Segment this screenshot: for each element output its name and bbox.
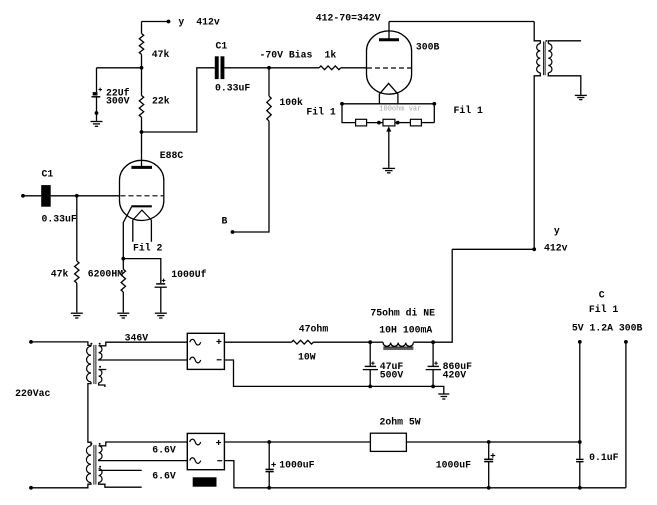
wire [141, 68, 143, 96]
transformer OT core [543, 42, 545, 76]
rectifier 2 plus mark [216, 442, 221, 444]
capacitor 1000uF (filament filter 2) [484, 458, 493, 460]
wire [413, 341, 433, 343]
node B terminal (-70V bias supply) [231, 230, 235, 234]
node y 412v terminal (E88C B+ feed) [167, 20, 171, 24]
pot wiper arrow [386, 126, 391, 131]
wire [99, 460, 188, 461]
wire [269, 67, 319, 69]
wire [77, 195, 120, 197]
capacitor 860uF 420V (smoothing) [428, 365, 439, 367]
svg-text:500V: 500V [380, 370, 404, 381]
node 220Vac terminal lower [29, 486, 33, 490]
node Fil 1 left [340, 102, 344, 106]
wire [433, 249, 452, 342]
transformer T2 secondary 6.6V unused winding [99, 469, 102, 483]
rectifier 1 AC mark upper [190, 339, 201, 345]
wire [341, 67, 367, 69]
node E88C cathode junction [121, 257, 125, 261]
wire [99, 358, 188, 361]
ground [575, 94, 587, 96]
wire [313, 341, 370, 343]
capacitor 1000Uf (cathode bypass) [156, 283, 165, 285]
svg-text:75ohm di NE: 75ohm di NE [370, 307, 435, 318]
wire E88C heater pin 2 [150, 220, 152, 242]
capacitor C1 0.33uF (input coupling) [41, 185, 51, 207]
resistor 1k (300B grid stopper) [319, 66, 341, 70]
transformer T2 core [93, 445, 95, 485]
node junction [396, 121, 400, 125]
wire E88C plate lead [141, 132, 143, 166]
label + of 22Uf [98, 89, 102, 91]
tube E88C heater [133, 210, 152, 220]
resistor 47k (input grid leak) [75, 261, 79, 283]
wire [342, 104, 356, 123]
svg-text:C1: C1 [216, 41, 228, 52]
rectifier bridge 1 body [187, 333, 224, 369]
node junction on 22Uf lead [95, 111, 99, 115]
wire [370, 341, 383, 343]
wire [122, 292, 124, 312]
transformer T2 phase dot secondary 1 [99, 443, 101, 445]
node junction fil rail / 5V line [578, 440, 582, 444]
node -70V bias junction [267, 66, 271, 70]
svg-text:412-70=342V: 412-70=342V [316, 13, 381, 24]
svg-text:E88C: E88C [160, 150, 184, 161]
node 220Vac terminal upper [29, 340, 33, 344]
node junction [377, 121, 381, 125]
node E88C anode junction [140, 130, 144, 134]
node y 412v (B+ node) [532, 247, 536, 251]
node junction fil rail / 1000uF [267, 440, 271, 444]
node junction ground rail [431, 385, 435, 389]
rectifier 2 AC mark lower [190, 458, 201, 464]
node junction ground rail [368, 385, 372, 389]
ground [91, 121, 103, 123]
ground [383, 167, 396, 169]
transformer T2 secondary 6.6V winding [99, 446, 102, 460]
ground [438, 393, 449, 395]
svg-text:10W: 10W [298, 352, 316, 363]
tube 300B plate [379, 38, 399, 41]
resistor 22k (E88C plate load lower) [139, 96, 143, 118]
wire stub [99, 369, 107, 371]
wire [96, 68, 98, 92]
svg-text:y: y [554, 225, 560, 236]
wire [268, 68, 270, 96]
transformer T1 secondary 346V winding [99, 346, 102, 360]
svg-text:5V 1.2A 300B: 5V 1.2A 300B [572, 322, 643, 333]
wire [31, 483, 91, 488]
wire [123, 259, 161, 284]
svg-text:300V: 300V [106, 95, 130, 106]
svg-text:Fil 2: Fil 2 [133, 242, 163, 253]
wire [224, 461, 626, 488]
wire [369, 342, 371, 366]
capacitor 47uF 500V (reservoir) [365, 365, 376, 367]
svg-text:100ohm var: 100ohm var [379, 105, 421, 113]
svg-text:1000uF: 1000uF [436, 459, 471, 470]
svg-text:B: B [222, 216, 228, 227]
svg-text:-70V Bias: -70V Bias [260, 50, 313, 61]
wire [160, 287, 162, 312]
svg-text:1000uF: 1000uF [279, 459, 314, 470]
node junction fil rail / 1000uF 2 [487, 440, 491, 444]
svg-text:C1: C1 [42, 169, 54, 180]
wire [51, 195, 77, 197]
ground [117, 312, 129, 314]
wire [367, 122, 383, 124]
rectifier 1 AC mark lower [190, 357, 201, 363]
wire [268, 442, 270, 469]
capacitor 0.1uF (filament bypass) [576, 458, 583, 460]
wire pot wiper [388, 131, 390, 168]
node 5V output terminal + [578, 340, 582, 344]
svg-text:412v: 412v [544, 243, 568, 254]
svg-text:47k: 47k [51, 269, 69, 280]
wire [88, 382, 91, 446]
label + of 1000uF 2 [491, 455, 496, 457]
wire [406, 441, 579, 443]
tube E88C envelope [120, 160, 164, 220]
wire 300B filament rail [342, 103, 434, 105]
wire [534, 22, 540, 44]
transformer T1 phase dot primary [90, 343, 92, 345]
tube E88C cathode [131, 205, 152, 207]
wire [233, 121, 270, 232]
wire [534, 73, 540, 250]
inductor choke 10H 100mA [383, 342, 413, 346]
svg-text:300B: 300B [416, 42, 440, 53]
wire [579, 462, 581, 488]
tube 300B filament [379, 83, 398, 103]
wire [96, 97, 98, 113]
svg-text:412v: 412v [196, 16, 220, 27]
wire [76, 283, 78, 312]
inductor choke core [383, 346, 413, 348]
wire [142, 68, 215, 132]
rectifier 2 minus mark [217, 460, 222, 462]
wire E88C heater pin 1 [132, 220, 134, 242]
svg-text:6.6V: 6.6V [152, 471, 176, 482]
wire [142, 21, 169, 23]
svg-text:Fil 1: Fil 1 [306, 106, 336, 117]
svg-text:0.33uF: 0.33uF [42, 213, 77, 224]
svg-text:1000Uf: 1000Uf [171, 269, 206, 280]
transformer OT phase dot [545, 40, 547, 42]
tube 300B grid (dashed) [367, 67, 411, 69]
transformer T1 core [93, 345, 95, 384]
resistor 47k (E88C plate load upper) [139, 34, 143, 55]
wire [224, 441, 370, 443]
svg-text:47k: 47k [152, 49, 170, 60]
wire [76, 196, 78, 261]
potentiometer 100ohm var body [383, 119, 395, 126]
svg-text:346V: 346V [125, 332, 149, 343]
rectifier bridge 2 body [187, 433, 224, 469]
svg-text:C: C [599, 289, 605, 300]
wire [99, 442, 188, 446]
node 5V output terminal - [624, 340, 628, 344]
capacitor C1 0.33uF (coupling to 300B) [215, 56, 219, 79]
capacitor 1000uF (filament filter 1) [266, 468, 274, 470]
svg-text:0.1uF: 0.1uF [589, 452, 619, 463]
transformer T1 phase dot secondary 1 [99, 343, 101, 345]
svg-text:22k: 22k [152, 96, 170, 107]
wire E88C cathode lead [123, 207, 131, 259]
node junction bottom rail 3 [578, 486, 582, 490]
wire [141, 117, 143, 132]
svg-text:Fil 1: Fil 1 [589, 304, 619, 315]
tube E88C grid (dashed) [121, 195, 164, 197]
transformer T1 phase dot secondary 2 [99, 366, 101, 368]
rectifier 1 plus mark [216, 341, 221, 343]
svg-text:y: y [178, 16, 184, 27]
rectifier 1 minus mark [217, 359, 222, 361]
wire [488, 462, 490, 488]
ground [71, 312, 83, 314]
svg-text:100k: 100k [279, 97, 303, 108]
node Fil 1 right [432, 102, 436, 106]
resistor hum pot right section [410, 119, 421, 126]
transformer T2 primary winding [86, 446, 91, 483]
svg-text:2ohm 5W: 2ohm 5W [380, 417, 421, 428]
wire [432, 370, 434, 387]
wire [141, 22, 143, 34]
node junction B+ / 860uF [431, 340, 435, 344]
svg-text:10H 100mA: 10H 100mA [379, 325, 432, 336]
wire [488, 442, 490, 459]
label + of 1000Uf [162, 279, 166, 281]
tube 300B envelope [367, 31, 412, 94]
label + of 1000uF [271, 464, 276, 466]
wire [548, 73, 581, 95]
wire stub [99, 469, 142, 471]
resistor 6200HM (cathode bias) [121, 269, 125, 292]
wire [433, 104, 435, 123]
wire [31, 342, 91, 346]
wire [369, 370, 371, 387]
wire [395, 122, 411, 124]
wire [421, 122, 434, 124]
resistor hum pot left section [356, 119, 367, 126]
wire [389, 21, 534, 23]
transformer OT secondary winding [548, 44, 552, 73]
resistor 2ohm 5W (filament dropper) [370, 433, 406, 451]
label block (black) [193, 477, 217, 486]
node E88C grid junction [75, 194, 79, 198]
ground [155, 312, 167, 314]
wire [432, 342, 434, 366]
transformer T2 phase dot secondary 2 [99, 466, 101, 468]
wire [96, 113, 98, 121]
resistor 47ohm 10W (B+ dropper) [292, 340, 314, 344]
svg-text:47ohm: 47ohm [299, 324, 329, 335]
wire [141, 54, 143, 67]
transformer T1 secondary unused winding [99, 370, 102, 383]
wire [548, 41, 581, 44]
wire [97, 67, 142, 69]
node junction 47k/22k [140, 66, 144, 70]
svg-text:220Vac: 220Vac [15, 388, 50, 399]
label + of 47uF [371, 362, 375, 364]
wire [23, 195, 41, 197]
tube E88C plate [131, 166, 152, 169]
node junction bottom rail 2 [487, 486, 491, 490]
wire 300B plate lead [388, 22, 390, 39]
node junction bottom rail [267, 486, 271, 490]
wire [268, 472, 270, 488]
transformer T2 phase dot primary [90, 443, 92, 445]
svg-text:1k: 1k [325, 50, 337, 61]
wire [99, 342, 188, 346]
transformer T1 primary winding [87, 346, 91, 382]
capacitor 22Uf 300V (decoupling, polarized) [93, 92, 98, 95]
node junction B+ / 47uF [368, 340, 372, 344]
node input terminal [21, 194, 25, 198]
wire [122, 259, 124, 270]
wire [452, 248, 534, 250]
wire [224, 341, 291, 343]
wire stub [99, 383, 105, 387]
rectifier 2 AC mark upper [190, 439, 201, 445]
wire [224, 360, 443, 394]
svg-text:0.33uF: 0.33uF [215, 83, 250, 94]
svg-text:Fil 1: Fil 1 [454, 105, 484, 116]
svg-text:6200HM: 6200HM [88, 269, 123, 280]
wire stub [99, 482, 142, 487]
resistor 100k (300B grid leak) [267, 96, 271, 121]
wire [625, 342, 627, 488]
svg-text:6.6V: 6.6V [152, 444, 176, 455]
wire [224, 67, 269, 69]
transformer OT primary winding [537, 44, 541, 73]
wire [579, 342, 581, 459]
svg-text:420V: 420V [443, 370, 467, 381]
label + of 860uF [434, 362, 438, 364]
